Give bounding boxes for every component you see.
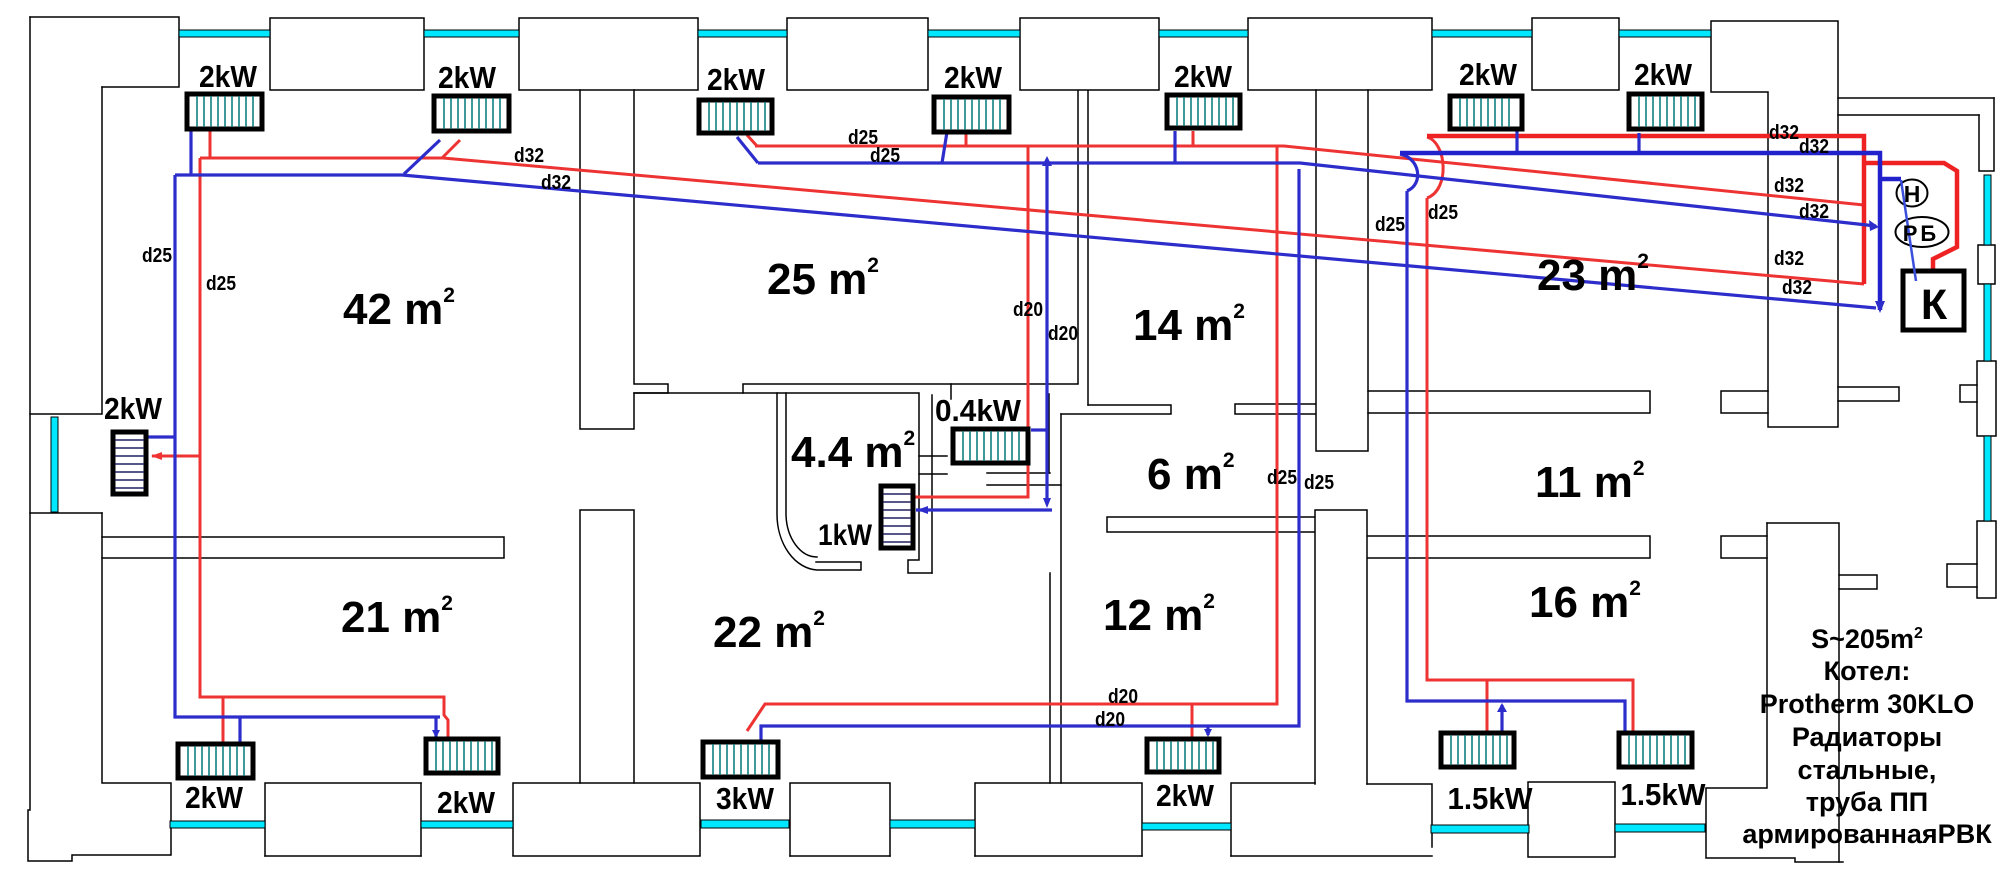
svg-text:2kW: 2kW	[1156, 778, 1215, 813]
svg-text:армированнаяРВК: армированнаяРВК	[1742, 819, 1992, 849]
svg-text:1.5kW: 1.5kW	[1448, 781, 1534, 816]
svg-text:d32: d32	[1774, 248, 1804, 270]
svg-text:d32: d32	[1774, 175, 1804, 197]
svg-text:d25: d25	[142, 245, 172, 267]
svg-text:11 m2: 11 m2	[1535, 457, 1645, 507]
svg-text:Радиаторы: Радиаторы	[1792, 722, 1942, 752]
svg-text:2kW: 2kW	[104, 391, 163, 426]
svg-text:Котел:: Котел:	[1824, 656, 1911, 686]
svg-text:d20: d20	[1095, 709, 1125, 731]
svg-text:Н: Н	[1904, 181, 1921, 207]
svg-text:21 m2: 21 m2	[341, 592, 453, 642]
svg-text:d25: d25	[1375, 214, 1405, 236]
svg-text:6 m2: 6 m2	[1147, 449, 1235, 499]
svg-text:d20: d20	[1048, 323, 1078, 345]
svg-text:d32: d32	[1799, 201, 1829, 223]
svg-text:d32: d32	[541, 172, 571, 194]
svg-text:4.4 m2: 4.4 m2	[791, 427, 915, 477]
svg-text:16 m2: 16 m2	[1529, 577, 1641, 627]
svg-text:d32: d32	[1782, 277, 1812, 299]
svg-text:d32: d32	[514, 145, 544, 167]
svg-text:2kW: 2kW	[1174, 59, 1233, 94]
svg-text:14 m2: 14 m2	[1133, 300, 1245, 350]
svg-text:2kW: 2kW	[707, 62, 766, 97]
svg-text:d25: d25	[206, 273, 236, 295]
svg-text:Protherm 30KLO: Protherm 30KLO	[1760, 689, 1975, 719]
svg-text:стальные,: стальные,	[1798, 755, 1937, 785]
svg-text:1.5kW: 1.5kW	[1621, 777, 1707, 812]
svg-text:3kW: 3kW	[716, 781, 775, 816]
svg-text:23 m2: 23 m2	[1537, 250, 1649, 300]
svg-text:S~205m2: S~205m2	[1811, 624, 1923, 654]
svg-text:d32: d32	[1799, 136, 1829, 158]
svg-text:2kW: 2kW	[438, 60, 497, 95]
svg-text:d25: d25	[870, 145, 900, 167]
svg-text:2kW: 2kW	[1634, 57, 1693, 92]
svg-text:42 m2: 42 m2	[343, 284, 455, 334]
svg-text:12 m2: 12 m2	[1103, 590, 1215, 640]
svg-text:РБ: РБ	[1903, 221, 1940, 246]
svg-text:d25: d25	[1428, 202, 1458, 224]
svg-text:d25: d25	[1267, 467, 1297, 489]
svg-text:труба ПП: труба ПП	[1806, 787, 1928, 817]
svg-text:d25: d25	[1304, 472, 1334, 494]
svg-text:d20: d20	[1108, 686, 1138, 708]
svg-text:d20: d20	[1013, 299, 1043, 321]
svg-text:2kW: 2kW	[199, 59, 258, 94]
svg-text:0.4kW: 0.4kW	[935, 393, 1022, 428]
svg-text:2kW: 2kW	[944, 60, 1003, 95]
svg-text:1kW: 1kW	[818, 519, 873, 552]
svg-text:d32: d32	[1769, 122, 1799, 144]
svg-text:22 m2: 22 m2	[713, 607, 825, 657]
svg-text:К: К	[1921, 281, 1948, 329]
svg-text:2kW: 2kW	[437, 785, 496, 820]
svg-text:25 m2: 25 m2	[767, 254, 879, 304]
svg-text:2kW: 2kW	[185, 780, 244, 815]
svg-text:2kW: 2kW	[1459, 57, 1518, 92]
